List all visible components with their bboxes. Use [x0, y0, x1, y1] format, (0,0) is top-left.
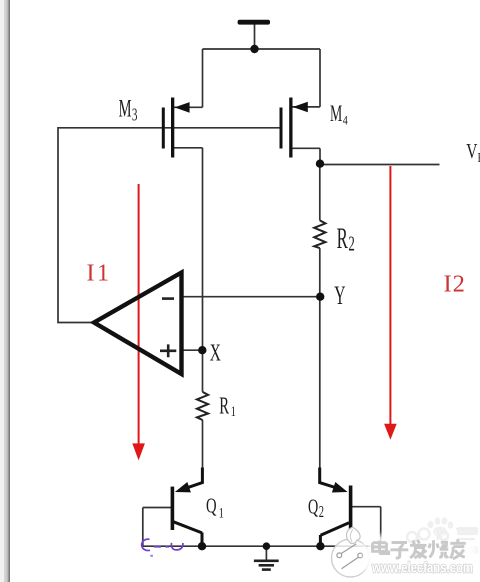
svg-text:3: 3 — [132, 106, 138, 125]
svg-text:I1: I1 — [87, 261, 112, 287]
svg-text:2: 2 — [348, 231, 354, 255]
svg-text:Q: Q — [206, 494, 217, 517]
svg-text:Y: Y — [334, 281, 345, 310]
svg-text:X: X — [210, 340, 221, 366]
svg-text:Q: Q — [308, 495, 318, 519]
svg-text:M: M — [119, 96, 132, 123]
svg-text:I2: I2 — [444, 270, 466, 297]
svg-text:1: 1 — [219, 503, 224, 520]
svg-text:R: R — [219, 393, 229, 420]
svg-text:1: 1 — [231, 403, 236, 419]
svg-text:2: 2 — [319, 503, 324, 522]
svg-text:www.elecfans.com: www.elecfans.com — [371, 561, 473, 577]
svg-text:M: M — [330, 102, 342, 127]
svg-text:R: R — [337, 222, 349, 255]
svg-text:V: V — [466, 140, 478, 164]
svg-text:4: 4 — [343, 115, 348, 128]
